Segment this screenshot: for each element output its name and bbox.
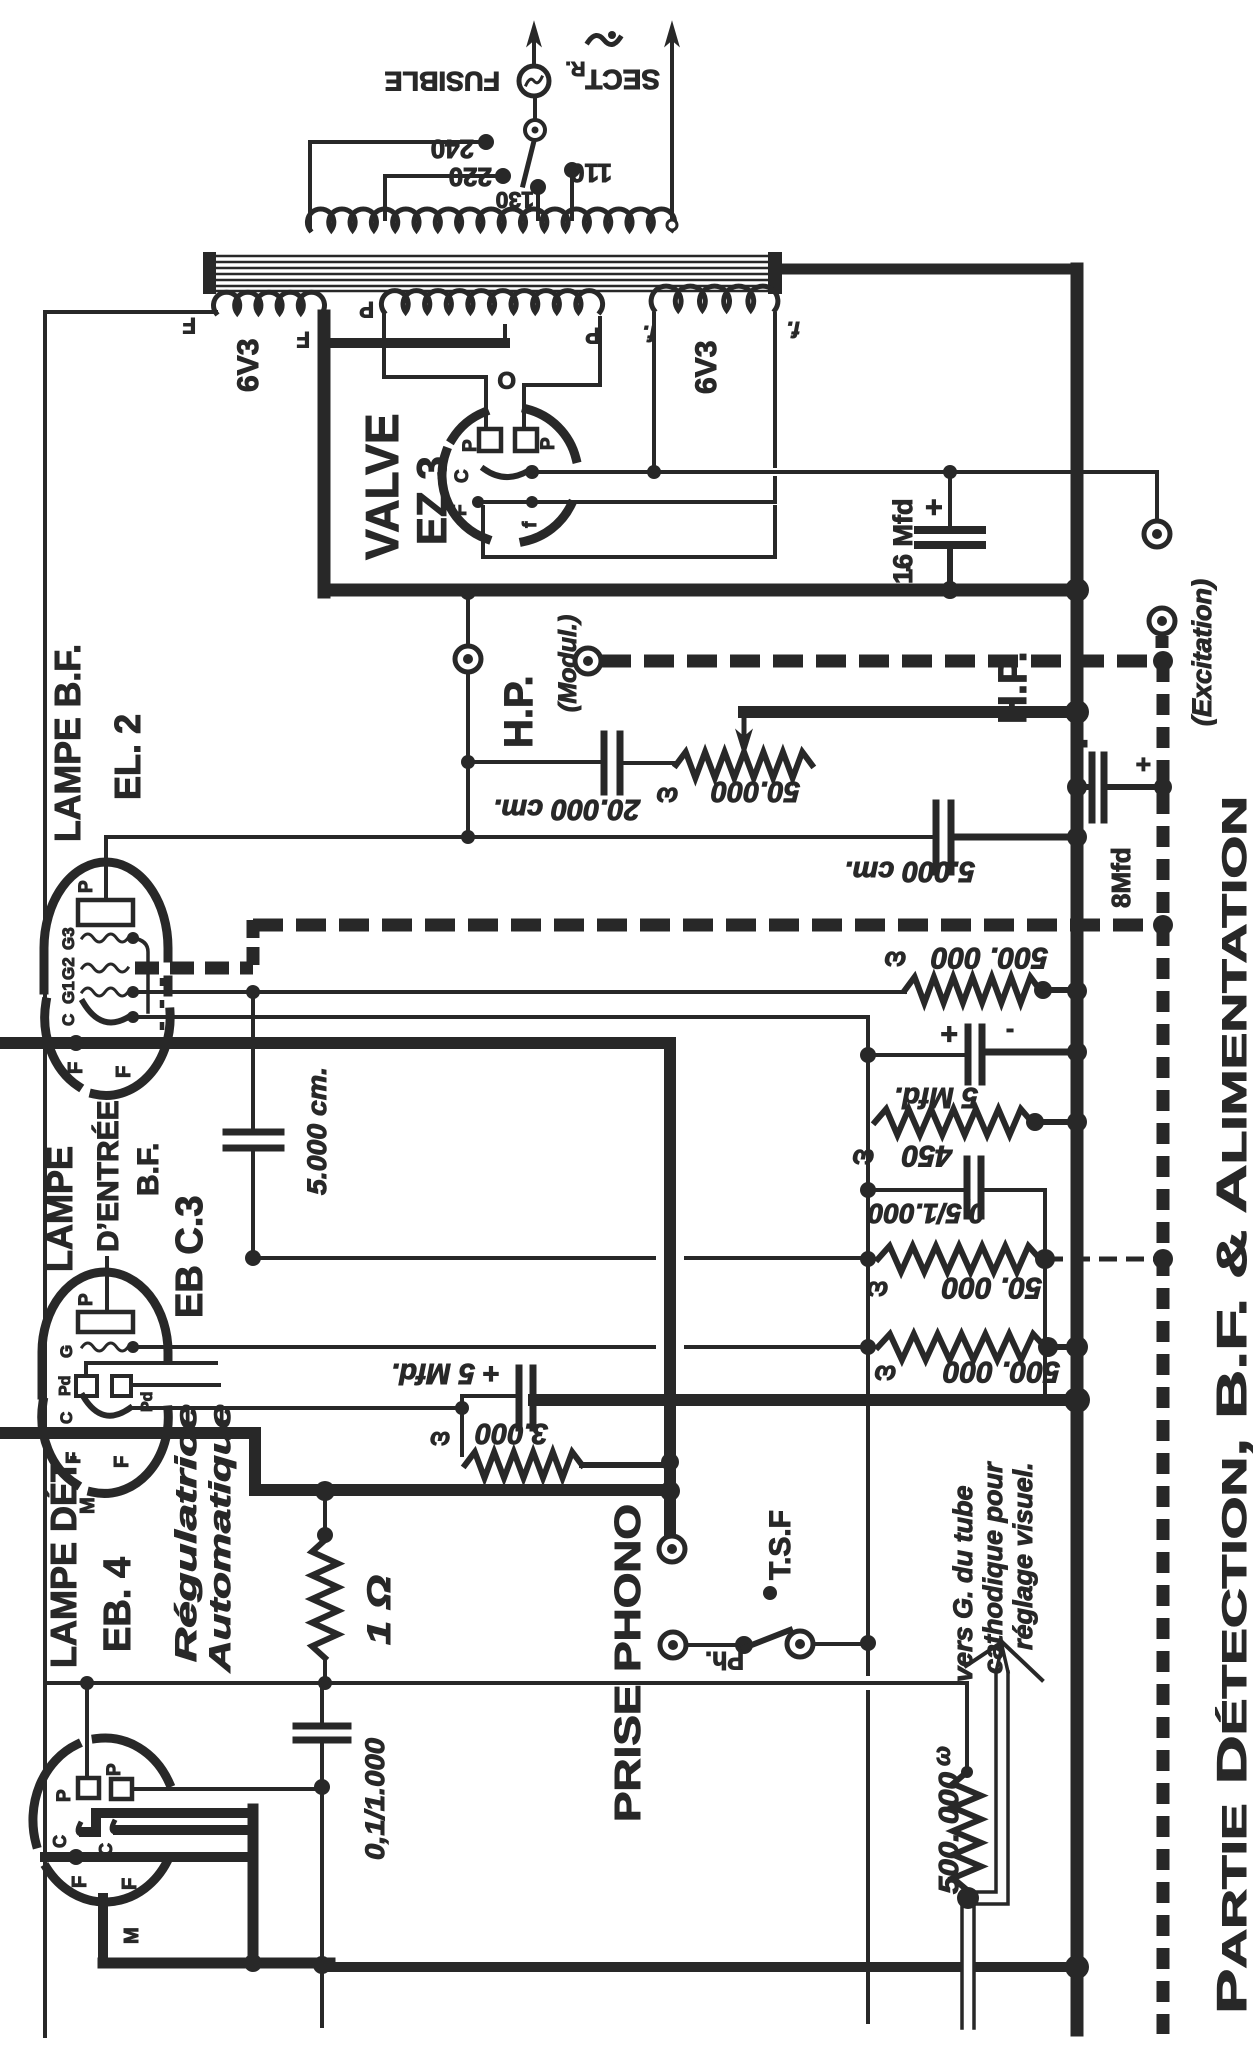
node tone tap junction xyxy=(461,755,475,769)
node 8Mfd to B+ dashed bus xyxy=(1154,778,1172,796)
svg-text:D’ENTRÉE: D’ENTRÉE xyxy=(91,1100,125,1252)
capacitor C7 0,5/1.000 xyxy=(860,1182,876,1198)
svg-text:P: P xyxy=(359,297,374,322)
wire HT left end to EZ3 plate 1 xyxy=(384,315,486,429)
node cathode net to 5Mfd xyxy=(860,1047,876,1063)
switch SW2 contact dot T.S.F xyxy=(763,1586,777,1600)
wire outlined pot bottom lead (to off-page) xyxy=(960,1904,964,2028)
node screen bus to B+ bus xyxy=(1153,915,1173,935)
svg-text:8Mfd: 8Mfd xyxy=(1106,847,1136,908)
switch SW1 voltage selector arm xyxy=(523,141,534,185)
svg-text:ω: ω xyxy=(430,1426,450,1453)
wire cathode line V3 xyxy=(133,1406,462,1410)
svg-text:cathodique pour: cathodique pour xyxy=(978,1461,1008,1674)
svg-text:+: + xyxy=(940,1017,958,1050)
svg-text:450: 450 xyxy=(902,1139,953,1172)
wire thick heater bus V3 xyxy=(0,1427,255,1439)
transformer T1 core laminations xyxy=(206,255,780,258)
svg-text:P: P xyxy=(538,437,559,450)
svg-text:f: f xyxy=(520,521,541,528)
wire thick main right bus (chassis) xyxy=(1071,269,1084,2030)
node heater at border xyxy=(68,1035,84,1051)
switch SW2 arm xyxy=(744,1630,790,1648)
svg-text:Pd: Pd xyxy=(57,1376,74,1396)
svg-text:vers G. du tube: vers G. du tube xyxy=(948,1485,978,1682)
capacitor C8 5 Mfd bias bypass xyxy=(462,1396,517,1408)
wire below bus off-page xyxy=(320,1971,324,2026)
wire dashed screen bus y925 xyxy=(253,919,1163,932)
svg-text:500. 000: 500. 000 xyxy=(943,1355,1060,1388)
svg-text:H.P.: H.P. xyxy=(497,675,541,748)
wire bottom return bus thin to right bus (gap for pot lead) xyxy=(330,1962,956,1972)
tube V1 EZ3 envelope xyxy=(524,505,571,542)
svg-text:+: + xyxy=(1128,757,1158,772)
wire 130 tap stub xyxy=(536,192,540,219)
tube V4 diode plate square 1 xyxy=(78,1778,99,1798)
wire HT right end to EZ3 plate 2 xyxy=(524,318,600,429)
svg-text:M: M xyxy=(121,1927,143,1944)
svg-text:F: F xyxy=(113,1066,135,1078)
tube V3 plate rect xyxy=(78,1312,133,1332)
svg-text:F: F xyxy=(183,313,196,338)
winding P1 mains primary xyxy=(307,209,674,230)
svg-text:P: P xyxy=(585,323,600,348)
svg-text:+: + xyxy=(918,498,951,516)
svg-text:ω: ω xyxy=(874,1360,896,1390)
wire G3 tie to cathode xyxy=(133,938,148,1012)
grid G2 wavy xyxy=(82,964,128,972)
resistor R4 50.000 plate load EBC3 xyxy=(860,1251,876,1267)
diode plate Pd square 1 xyxy=(76,1376,97,1396)
node 0,1/1000 line to bus xyxy=(313,1956,331,1974)
tube V3 envelope bottom arcs xyxy=(42,1402,76,1484)
svg-text:240: 240 xyxy=(431,134,474,164)
svg-text:O: O xyxy=(497,366,516,393)
node cathode drop to bus xyxy=(244,1954,262,1972)
svg-text:F: F xyxy=(111,1456,133,1468)
node primary right end (open dot) xyxy=(667,220,677,230)
diode plate Pd square 2 xyxy=(112,1376,131,1396)
svg-text:EB C.3: EB C.3 xyxy=(169,1196,211,1318)
svg-text:Automatique: Automatique xyxy=(204,1404,237,1673)
svg-text:EL. 2: EL. 2 xyxy=(107,714,148,800)
svg-text:6V3: 6V3 xyxy=(232,339,265,392)
wire dashed screen step vertical xyxy=(247,920,260,968)
wire AVC/pot feed line y1683 xyxy=(45,1681,967,1685)
wire thick drop to bottom bus xyxy=(248,1809,259,1963)
wire filament line xyxy=(478,500,775,504)
tube V1 plate square 2 xyxy=(515,429,537,451)
wire cathode line xyxy=(133,1015,868,1019)
svg-text:B.F.: B.F. xyxy=(132,1143,165,1196)
svg-text:P: P xyxy=(460,439,481,452)
wire filament return loop below tube xyxy=(483,507,775,557)
terminal ring H.P. modul left xyxy=(455,646,481,672)
tube V1 cathode arc xyxy=(484,469,528,477)
terminal ring H.P. excitation return xyxy=(1149,608,1175,634)
wire EL2 cathode vertical / AVC line xyxy=(866,1017,870,2022)
node plate line junction xyxy=(461,830,475,844)
wire R4 to B+ dashed xyxy=(1045,1257,1163,1262)
wire thick bottom return bus xyxy=(103,1958,330,1969)
wire fuse to mains arrow xyxy=(532,40,536,66)
wire tone line xyxy=(468,760,602,764)
svg-text:F: F xyxy=(297,327,310,352)
wire plate1 lead up to AVC line xyxy=(85,1683,89,1778)
resistor R2 500.000 grid leak EL2 xyxy=(905,977,1040,1003)
node 110 tap dot xyxy=(564,162,580,178)
terminal ring T.S.F xyxy=(787,1631,813,1657)
svg-text:3.000: 3.000 xyxy=(475,1417,548,1449)
svg-text:LAMPE B.F.: LAMPE B.F. xyxy=(47,644,88,842)
winding L2 HT secondary xyxy=(381,291,602,312)
node wiper line to bus xyxy=(1065,700,1089,724)
svg-text:PRISE PHONO: PRISE PHONO xyxy=(607,1504,648,1822)
wire 6V3b right lead down (bridges cathode line) xyxy=(773,314,777,466)
switch SW1 pivot ring xyxy=(525,120,545,140)
wire mains right lead with arrow xyxy=(670,40,674,221)
svg-text:5.000 cm.: 5.000 cm. xyxy=(302,1067,332,1195)
wire HP modul left terminal to ground bus xyxy=(466,592,470,646)
wire 6V3b left lead down xyxy=(652,314,656,472)
wire heater line V4 from border xyxy=(45,1852,253,1862)
svg-text:ω: ω xyxy=(866,1276,888,1306)
svg-text:f.: f. xyxy=(787,317,800,342)
resistor R5 500.000 grid EBC3 xyxy=(860,1339,876,1355)
node EB4 plate lead xyxy=(80,1676,94,1690)
svg-text:C: C xyxy=(57,1412,76,1424)
svg-text:1 Ω: 1 Ω xyxy=(361,1575,397,1645)
grid G wavy xyxy=(82,1343,128,1351)
node 240 tap dot xyxy=(478,134,494,150)
potentiometer R1 50.000 zigzag xyxy=(676,752,812,778)
svg-text:F: F xyxy=(450,504,471,516)
wire thick heater drop to phono xyxy=(664,1043,676,1536)
winding L3 6V3 secondary (right) xyxy=(651,286,778,310)
node junction 6V3b to cathode xyxy=(647,465,661,479)
svg-text:(Modul.): (Modul.) xyxy=(554,615,582,712)
node coupling cap to EBC3 plate line xyxy=(245,1250,261,1266)
AC tilde mark near SECTR xyxy=(588,35,620,44)
resistor R3 450 cathode bias EL2 xyxy=(875,1109,1032,1135)
svg-text:50.000: 50.000 xyxy=(711,775,800,807)
wire Pd2 stub xyxy=(131,1383,219,1387)
svg-text:P: P xyxy=(54,1789,75,1802)
node on AVC line xyxy=(860,1635,876,1651)
wire 110 tap stub xyxy=(570,174,574,219)
node 5.000cm to bus xyxy=(1067,827,1087,847)
terminal ring phono bottom (Ph) xyxy=(660,1632,686,1658)
svg-text:T.S.F: T.S.F xyxy=(764,1510,797,1580)
svg-text:0,5/1.000: 0,5/1.000 xyxy=(868,1198,985,1229)
wire thick ground return bus y1400 xyxy=(534,1394,1077,1406)
svg-text:P: P xyxy=(76,1293,97,1306)
node bottom bus to right bus xyxy=(1065,1955,1089,1979)
wire thick wiper to right bus xyxy=(744,706,1077,718)
wire M stem (metallisation) xyxy=(98,1898,108,1963)
svg-text:P: P xyxy=(104,1763,125,1776)
capacitor C3 5.000 cm plates xyxy=(933,803,940,872)
node 16Mfd to ground bus xyxy=(941,581,959,599)
small dashed marks below EL2 G2 xyxy=(160,978,165,1040)
wire plate2 lead to 0,1/1.000 xyxy=(132,1787,322,1791)
svg-text:F: F xyxy=(119,1878,141,1890)
svg-text:50. 000: 50. 000 xyxy=(942,1271,1042,1304)
wire thick centre tap to bus xyxy=(326,338,505,348)
winding L1 6V3 secondary (left) xyxy=(214,292,325,313)
wire dashed B+ bus horizontal (speaker feed) xyxy=(601,655,1163,668)
svg-text:G2: G2 xyxy=(59,957,78,980)
potentiometer R8 500.000 volume (vertical) xyxy=(953,1772,981,1890)
tube V3 envelope dome xyxy=(42,1272,168,1395)
wire left border filament line xyxy=(43,312,47,2036)
capacitor C1 16 Mfd plates xyxy=(948,472,952,527)
wire primary left end to 240 tap xyxy=(310,142,480,230)
wire Pd1 stub xyxy=(86,1363,216,1376)
svg-text:P: P xyxy=(76,880,97,893)
tube V4 envelope xyxy=(47,1861,168,1902)
svg-text:C: C xyxy=(452,469,473,483)
grid G1 wavy xyxy=(82,988,128,996)
wire thick cathode lead 1 xyxy=(84,1813,253,1832)
svg-text:FUSIBLE: FUSIBLE xyxy=(384,66,500,96)
terminal ring PRISE PHONO top xyxy=(659,1536,685,1562)
capacitor C6 5 Mfd cathode bypass xyxy=(868,1053,966,1057)
switch SW2 pivot dot xyxy=(735,1636,753,1654)
wire 220 tap xyxy=(385,176,498,219)
svg-text:130: 130 xyxy=(496,187,534,213)
svg-text:LAMPE: LAMPE xyxy=(39,1146,80,1272)
svg-text:20.000 cm.: 20.000 cm. xyxy=(493,793,641,825)
node cathode junction xyxy=(525,465,539,479)
wire thick cathode lead 2 xyxy=(118,1825,253,1835)
tube V2 plate rectangle xyxy=(78,900,133,925)
node ground bus / right bus junction xyxy=(1065,578,1089,602)
capacitor C9 0,1/1.000 xyxy=(320,1683,324,1724)
mains lead arrowhead (left) xyxy=(527,22,541,46)
wire dashed B+ bus vertical xyxy=(1157,661,1170,2034)
terminal ring H.P. modul right xyxy=(575,648,601,674)
svg-text:G3: G3 xyxy=(59,927,78,950)
svg-text:-: - xyxy=(890,562,923,572)
svg-text:220: 220 xyxy=(449,162,492,192)
capacitor C5 coupling 5.000 cm plates xyxy=(226,1129,281,1136)
tube V2 envelope bottom xyxy=(45,1002,78,1086)
svg-text:6V3: 6V3 xyxy=(690,341,723,394)
svg-text:500. 000: 500. 000 xyxy=(931,941,1048,974)
wire thick ground bus horizontal xyxy=(324,584,1077,597)
wire TSF ring to AVC line xyxy=(813,1642,868,1646)
node 130 tap dot xyxy=(530,179,546,195)
wire dashed screen to EL2 G2 xyxy=(135,962,253,975)
svg-text:ω: ω xyxy=(929,1746,956,1766)
tube V2 envelope dome xyxy=(44,862,168,990)
wire border to 6V3 winding xyxy=(45,310,216,314)
svg-text:réglage visuel.: réglage visuel. xyxy=(1008,1462,1038,1650)
svg-text:G1: G1 xyxy=(59,981,78,1004)
resistor R6 3.000 bias xyxy=(460,1408,464,1455)
grid G3 wavy xyxy=(82,934,128,942)
wire G1 line to grid leak xyxy=(133,990,905,994)
resistor R7 1 ohm xyxy=(323,1491,327,1540)
node pot bottom junction xyxy=(957,1887,979,1909)
terminal ring H.P. excitation + xyxy=(1144,521,1170,547)
node on ground bus xyxy=(460,584,476,600)
capacitor C4 8Mfd plates xyxy=(1067,777,1087,797)
svg-text:C: C xyxy=(50,1835,70,1848)
capacitor C2 20.000 cm plates xyxy=(601,734,608,792)
node G1 to coupling cap xyxy=(246,985,260,999)
svg-text:F: F xyxy=(65,1062,87,1074)
node 220 tap dot xyxy=(495,168,511,184)
node 1 ohm top xyxy=(315,1481,335,1501)
wire EL2 plate line xyxy=(106,835,933,839)
wire thick heater bus y1043 xyxy=(0,1037,668,1049)
wire HT+ down to excitation terminal xyxy=(1155,472,1159,519)
wire thick drop from 6V3 winding to ground bus xyxy=(318,316,331,592)
tube V4 diode plate square 2 xyxy=(111,1779,132,1799)
wire bridge gap: plate line over heater drop xyxy=(656,1258,868,1690)
svg-text:ω: ω xyxy=(884,946,906,976)
wire corner down to volume pot xyxy=(965,1683,969,1768)
svg-text:+ 5 Mfd.: + 5 Mfd. xyxy=(391,1357,500,1389)
wire EBC3 plate line xyxy=(253,1256,868,1260)
wire switch to fuse xyxy=(533,97,537,120)
svg-text:-: - xyxy=(1006,1018,1014,1045)
svg-text:110: 110 xyxy=(570,158,612,188)
svg-text:5.000 cm.: 5.000 cm. xyxy=(844,855,975,887)
cathode hooks V4 xyxy=(78,1824,86,1834)
svg-text:G: G xyxy=(57,1345,76,1358)
svg-text:EB. 4: EB. 4 xyxy=(97,1557,139,1652)
arrow outlined to CRT grid (vers G du tube cathodique) xyxy=(974,1672,996,1892)
wire plate lead up xyxy=(104,837,108,900)
fuse F1 FUSIBLE symbol xyxy=(519,66,549,96)
svg-text:VALVE: VALVE xyxy=(356,413,408,560)
wire HP left ring down to plate line xyxy=(466,672,470,837)
svg-text:C: C xyxy=(59,1014,78,1026)
svg-text:H.P.: H.P. xyxy=(991,651,1035,724)
svg-text:0,1/1.000: 0,1/1.000 xyxy=(360,1738,390,1860)
wire HT centre tap O xyxy=(503,326,507,342)
svg-text:-: - xyxy=(1068,739,1098,748)
svg-text:500. 000: 500. 000 xyxy=(933,1772,964,1894)
R1 wiper arrow xyxy=(742,712,747,749)
coupling cap line from G1 xyxy=(251,992,255,1130)
node dashed bus corner xyxy=(1153,651,1173,671)
wire drop from C7 to ground bus thick xyxy=(1043,1190,1047,1398)
wire dashed stub ring to bus xyxy=(1156,636,1169,656)
cathode arc of V2 xyxy=(83,1002,130,1022)
node 1ohm bottom xyxy=(318,1676,332,1690)
cathode arc V3 xyxy=(83,1396,130,1416)
svg-text:ω: ω xyxy=(656,782,678,812)
svg-text:F: F xyxy=(69,1876,91,1888)
svg-text:(Excitation): (Excitation) xyxy=(1187,579,1217,726)
node filament pin dot xyxy=(472,496,484,508)
node junction 16Mfd top xyxy=(943,465,957,479)
svg-text:LAMPE DÉT.: LAMPE DÉT. xyxy=(43,1454,84,1668)
wire phono to switch pivot xyxy=(686,1643,736,1647)
svg-text:ω: ω xyxy=(852,1144,874,1174)
wire grid line to R5 xyxy=(133,1345,868,1349)
tube V1 plate square 1 xyxy=(479,429,501,451)
wire thick from core to right ground bus xyxy=(780,264,1077,275)
svg-text:Régulatrice: Régulatrice xyxy=(170,1404,203,1662)
wire cathode HT+ line to excitation terminal xyxy=(532,470,1157,474)
